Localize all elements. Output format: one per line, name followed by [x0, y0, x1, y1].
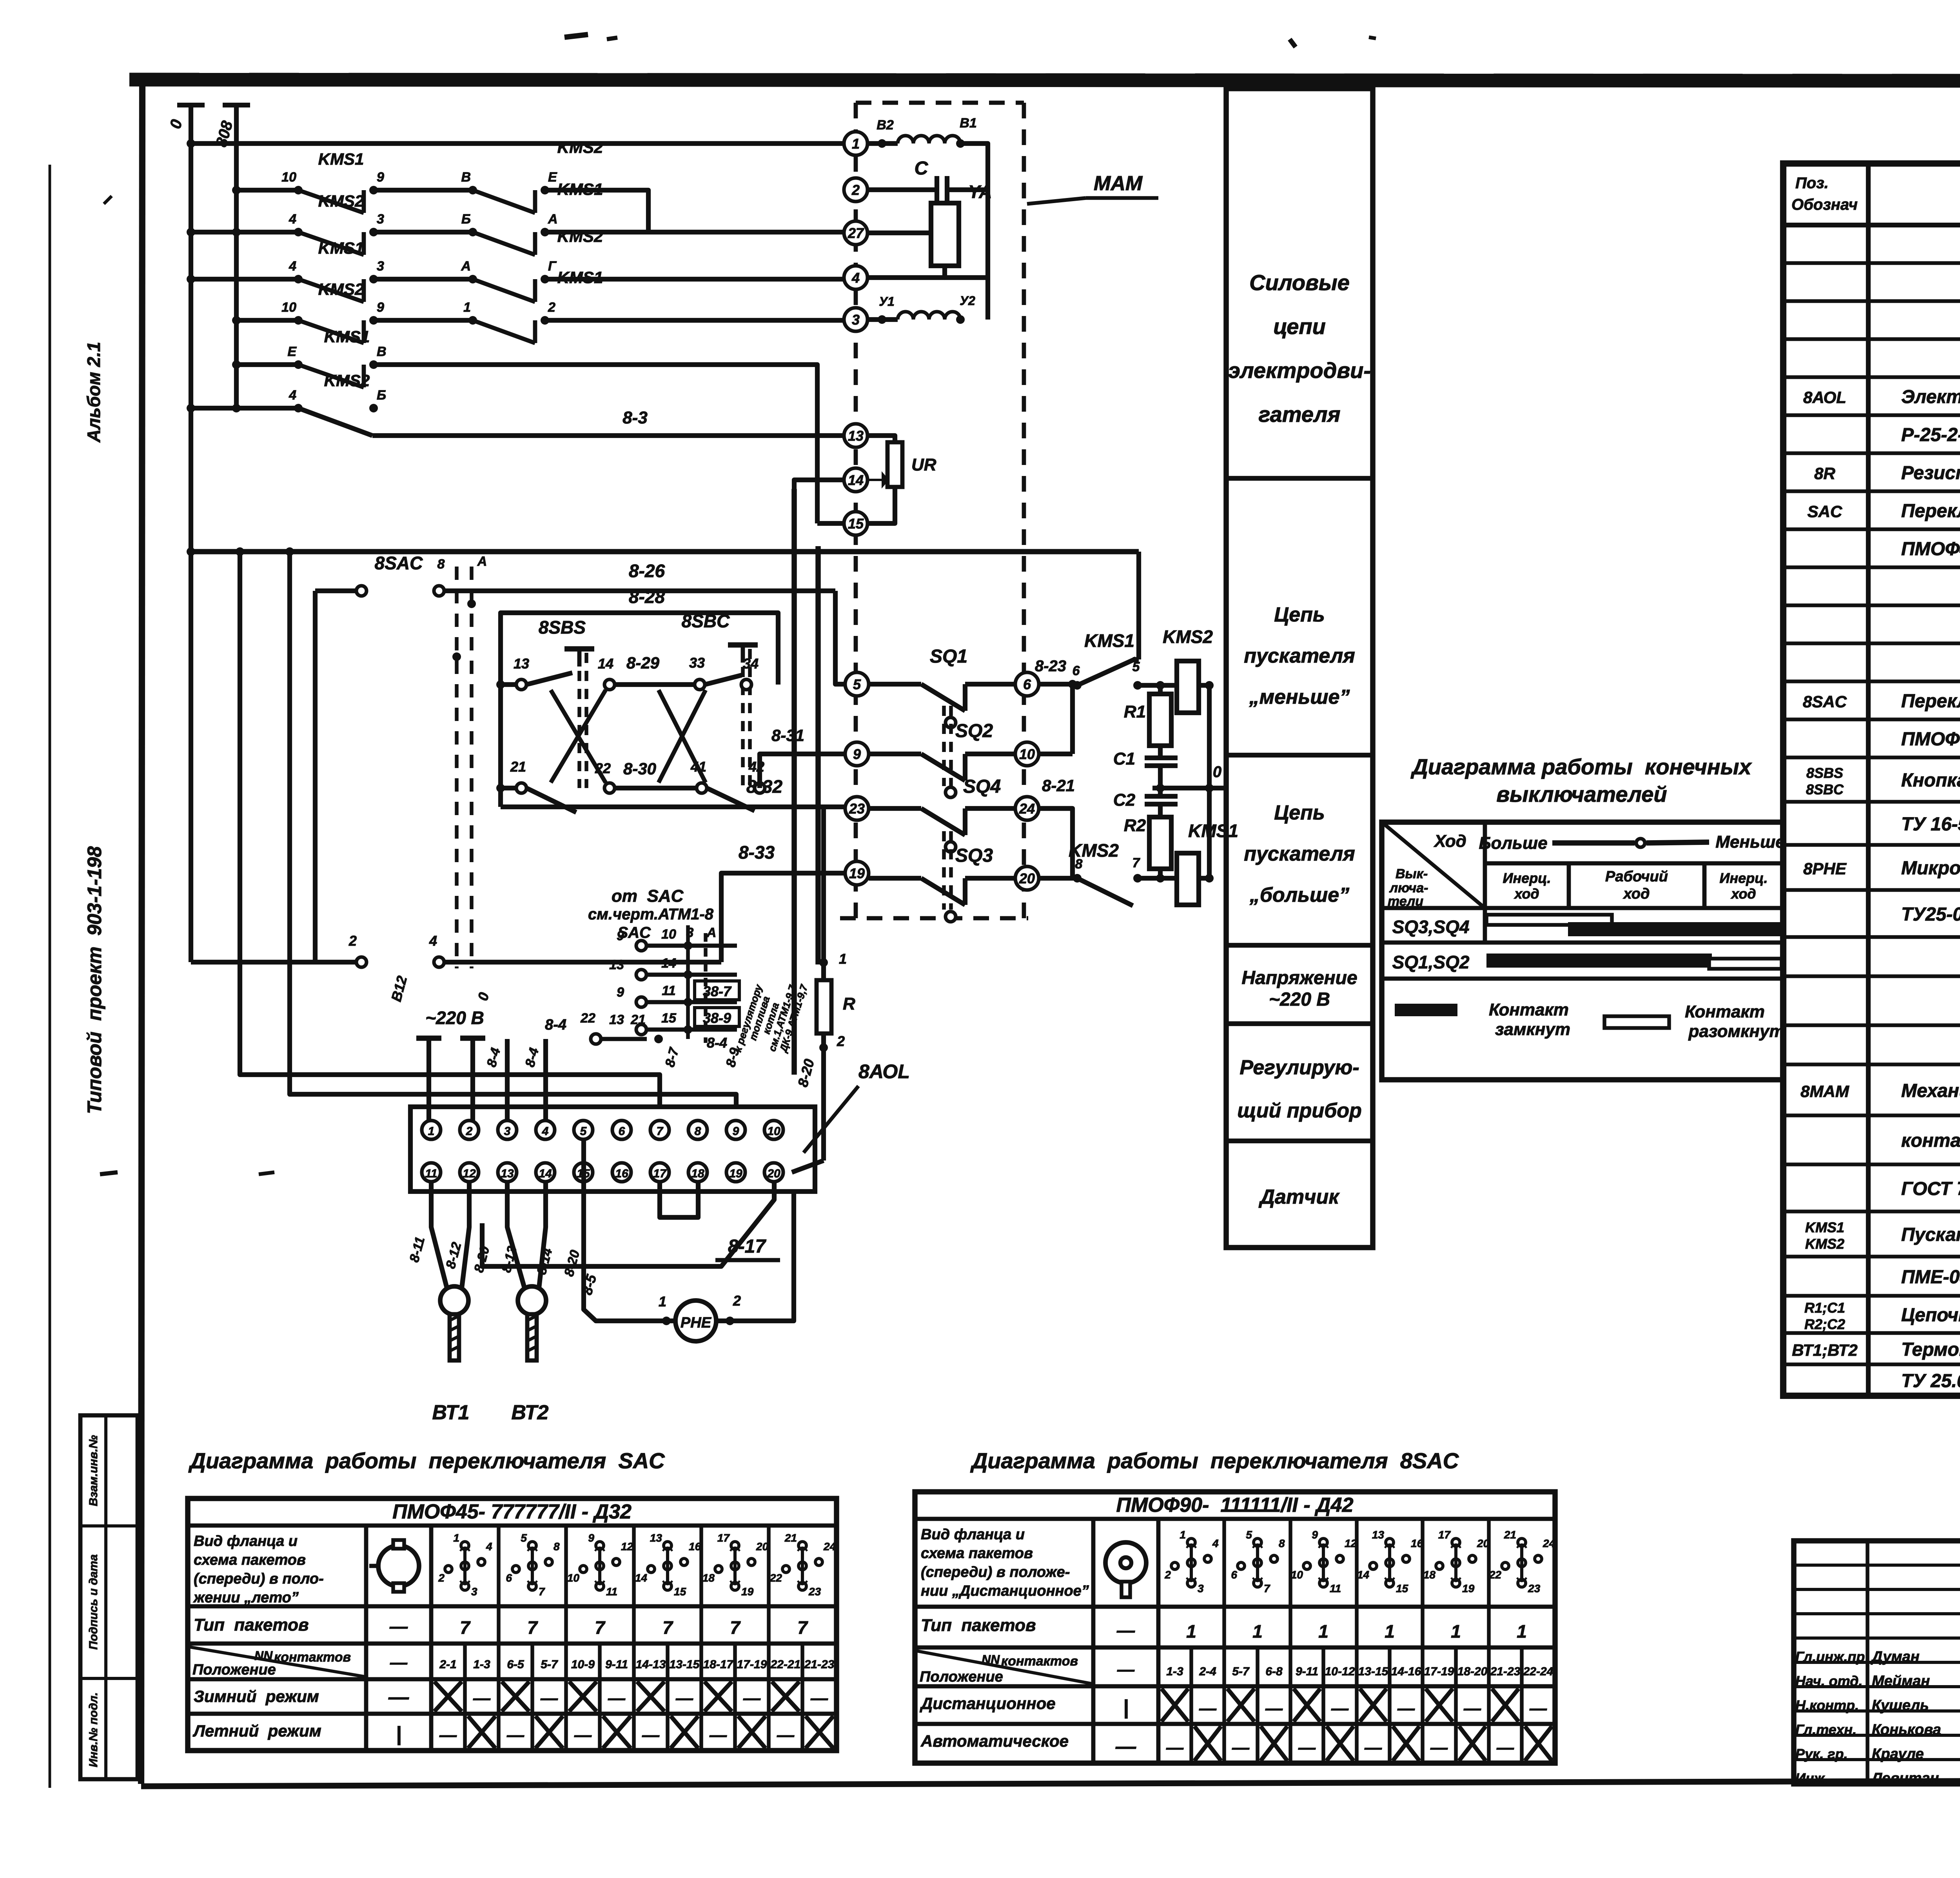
table headers	[1791, 174, 1960, 213]
MAM device dashed boundary	[840, 103, 1028, 918]
svg-text:19: 19	[741, 1586, 754, 1598]
bus 808	[213, 105, 250, 408]
svg-text:Летний режим: Летний режим	[192, 1722, 321, 1740]
svg-text:UR: UR	[911, 455, 936, 474]
button contact row 2 (21,22,41,42)	[496, 759, 765, 812]
svg-text:8-3: 8-3	[622, 408, 648, 427]
connector block 8AOL outline	[410, 1107, 815, 1191]
svg-text:гателя: гателя	[1259, 402, 1341, 427]
svg-text:ТУ25-04-1123-73: ТУ25-04-1123-73	[1901, 904, 1960, 925]
crossing wires X	[551, 690, 706, 783]
svg-text:2: 2	[348, 933, 357, 949]
svg-text:24: 24	[823, 1540, 836, 1553]
svg-text:ПМОФ90- 111111/II - Д42: ПМОФ90- 111111/II - Д42	[1116, 1494, 1354, 1517]
svg-text:Кнопка КЕ 011.УЗ, исп.2; ~50: Кнопка КЕ 011.УЗ, исп.2; ~500В	[1901, 770, 1960, 791]
svg-text:РНЕ: РНЕ	[681, 1315, 712, 1331]
svg-text:~220 В: ~220 В	[1269, 989, 1330, 1010]
svg-text:8SAC: 8SAC	[1803, 692, 1847, 711]
label Reguliruyushchiy pribor	[1237, 1056, 1362, 1122]
table row Р-25-2-1 ТУ25	[1901, 425, 1960, 445]
svg-text:21: 21	[784, 1532, 797, 1544]
motor winding U1-U2	[867, 294, 975, 324]
svg-text:8-4: 8-4	[545, 1017, 566, 1033]
packet scheme glyphs	[1164, 1529, 1555, 1595]
svg-text:22: 22	[595, 760, 611, 776]
mode row 1 pattern	[1123, 1689, 1547, 1722]
svg-text:11: 11	[1330, 1582, 1341, 1595]
svg-text:KMS2: KMS2	[1805, 1236, 1844, 1252]
contact KMS2 8-7	[1039, 840, 1160, 906]
svg-text:ПМОФ45- 777777/II - Д32: ПМОФ45- 777777/II - Д32	[392, 1500, 632, 1523]
svg-text:7: 7	[1264, 1582, 1270, 1595]
svg-text:Напряжение: Напряжение	[1241, 968, 1357, 988]
node 0 wire	[1152, 763, 1227, 792]
svg-text:22-24: 22-24	[1523, 1665, 1553, 1678]
packet type row	[389, 1616, 808, 1638]
table row ПМОФ45-777777/II-Д	[1901, 539, 1960, 559]
svg-text:4: 4	[429, 933, 437, 949]
terminal circle 20	[1015, 866, 1039, 890]
svg-text:Цепь: Цепь	[1274, 801, 1325, 824]
svg-text:Пускатель магнитный реверсив: Пускатель магнитный реверсивный	[1901, 1224, 1960, 1245]
svg-text:8-31: 8-31	[771, 726, 804, 745]
switch diagram table ПМОФ90- 111111/II - Д42	[915, 1492, 1555, 1763]
svg-text:ПМОФ90-111111/II-Д42 ТУ16-526: ПМОФ90-111111/II-Д42 ТУ16-526.128-75	[1901, 729, 1960, 750]
limit switch diagram table	[1382, 822, 1783, 1080]
svg-text:8-17: 8-17	[728, 1236, 766, 1257]
svg-text:8АОL: 8АОL	[858, 1061, 910, 1082]
svg-text:пускателя: пускателя	[1244, 843, 1355, 865]
table row 8МАМ	[1800, 1081, 1960, 1101]
svg-text:(спереди) в положе-: (спереди) в положе-	[921, 1564, 1070, 1580]
svg-text:13: 13	[609, 957, 624, 972]
svg-text:4: 4	[486, 1540, 492, 1553]
svg-text:19: 19	[729, 1167, 742, 1180]
scan noise marks top edge	[100, 35, 1376, 1174]
svg-text:1: 1	[453, 1532, 459, 1544]
terminal circle 27	[844, 221, 867, 245]
supply ~220V	[388, 974, 492, 1121]
coil KMS2	[1160, 627, 1213, 713]
svg-text:|: |	[1123, 1696, 1129, 1719]
svg-text:Б: Б	[461, 212, 471, 227]
svg-text:7: 7	[539, 1586, 545, 1598]
8SAC mechanical link dashed	[437, 554, 487, 968]
svg-text:18: 18	[702, 1572, 715, 1584]
svg-text:2-4: 2-4	[1199, 1665, 1216, 1678]
svg-text:замкнут: замкнут	[1495, 1020, 1570, 1039]
svg-text:8-21: 8-21	[1042, 776, 1075, 795]
svg-text:1: 1	[1318, 1621, 1328, 1642]
rotated notes block	[732, 983, 810, 1054]
svg-text:13: 13	[514, 656, 529, 672]
component table	[1783, 163, 1960, 1396]
svg-text:Регулирую-: Регулирую-	[1240, 1056, 1359, 1079]
svg-text:Подпись и дата: Подпись и дата	[87, 1554, 100, 1649]
svg-text:8SBC: 8SBC	[682, 611, 730, 631]
svg-text:5: 5	[580, 1125, 587, 1138]
svg-text:14-13: 14-13	[636, 1658, 666, 1671]
svg-text:KMS2: KMS2	[1163, 627, 1213, 647]
svg-text:8: 8	[1279, 1537, 1285, 1549]
svg-text:9: 9	[377, 170, 384, 185]
svg-text:Датчик: Датчик	[1258, 1186, 1340, 1208]
svg-text:8SAC: 8SAC	[375, 553, 423, 573]
wire 8-28 button enclosure top	[501, 587, 778, 807]
svg-text:1: 1	[1385, 1621, 1395, 1642]
contactor contacts row KMS1 4-3 / KMS2 A-G	[187, 227, 844, 302]
svg-text:контактный МЭО-250/25-0,25: контактный МЭО-250/25-0,25	[1901, 1130, 1960, 1151]
svg-text:Нач. отд.: Нач. отд.	[1795, 1673, 1862, 1689]
table row ТУ 16-526. 407-76	[1901, 808, 1960, 839]
svg-text:18: 18	[1423, 1569, 1436, 1581]
circuit group label column	[1226, 89, 1373, 1248]
wire 8-17 diagonal from terminal 20	[482, 1182, 780, 1266]
svg-text:1: 1	[839, 951, 847, 967]
svg-text:24: 24	[1543, 1537, 1555, 1549]
svg-text:—: —	[1115, 1735, 1136, 1758]
svg-text:—: —	[1199, 1699, 1217, 1718]
svg-text:23: 23	[808, 1586, 821, 1598]
svg-text:Б: Б	[377, 388, 386, 403]
svg-text:выключателей: выключателей	[1496, 782, 1667, 806]
svg-text:ВТ1;ВТ2: ВТ1;ВТ2	[1792, 1341, 1857, 1359]
limit switch SQ4	[869, 776, 1015, 852]
svg-text:—: —	[675, 1689, 693, 1708]
svg-text:—: —	[810, 1689, 828, 1708]
svg-text:А: А	[461, 259, 471, 274]
contactor contact row E KMS1 V	[232, 327, 817, 523]
svg-text:14: 14	[635, 1572, 648, 1584]
svg-text:6: 6	[1023, 676, 1031, 692]
svg-text:12: 12	[1345, 1537, 1357, 1549]
svg-text:KMS1: KMS1	[318, 150, 364, 168]
svg-text:18-20: 18-20	[1457, 1665, 1488, 1678]
terminal circle 23	[845, 797, 869, 820]
svg-text:SQ3: SQ3	[955, 845, 993, 866]
svg-text:10: 10	[661, 927, 676, 942]
svg-text:Р-25-2-1 ТУ25.02.1948-76: Р-25-2-1 ТУ25.02.1948-76	[1901, 425, 1960, 445]
svg-text:7: 7	[797, 1617, 808, 1638]
svg-text:12: 12	[621, 1540, 633, 1553]
svg-text:11: 11	[425, 1167, 437, 1180]
wire to terminal 15	[817, 521, 845, 526]
table row KMS1|KMS2	[1805, 1219, 1960, 1252]
svg-text:—: —	[1463, 1699, 1481, 1718]
svg-text:27: 27	[848, 225, 864, 241]
svg-text:8-4: 8-4	[707, 1035, 727, 1051]
table row ВТ1;ВТ2	[1792, 1339, 1960, 1360]
svg-text:16: 16	[689, 1540, 701, 1553]
signature names	[1795, 1649, 1960, 1787]
svg-text:Поз.: Поз.	[1795, 174, 1829, 192]
svg-text:8-28: 8-28	[629, 587, 665, 607]
svg-text:2: 2	[851, 182, 860, 198]
svg-text:17-19: 17-19	[737, 1658, 767, 1671]
label Silovye tsepi	[1228, 270, 1371, 427]
svg-text:9: 9	[617, 985, 624, 1000]
svg-text:Положение: Положение	[920, 1669, 1003, 1685]
svg-text:—: —	[1397, 1699, 1415, 1718]
packet type row	[1116, 1620, 1527, 1642]
svg-text:14: 14	[539, 1167, 552, 1180]
svg-text:~220 В: ~220 В	[425, 1008, 484, 1028]
svg-text:Думан: Думан	[1871, 1649, 1920, 1665]
mode row 1 pattern	[388, 1682, 828, 1711]
svg-text:—: —	[1298, 1738, 1316, 1757]
svg-text:14: 14	[598, 656, 613, 672]
risers terminals 7 9 from SAC contacts	[662, 1045, 742, 1068]
svg-text:1: 1	[428, 1125, 435, 1138]
svg-text:Положение: Положение	[192, 1662, 276, 1678]
capacitor C	[867, 158, 988, 203]
svg-text:Рук. гр.: Рук. гр.	[1795, 1746, 1848, 1762]
svg-text:15: 15	[848, 516, 864, 532]
svg-text:—: —	[388, 1686, 409, 1709]
wire 8-3 to terminal 13	[298, 408, 845, 436]
svg-text:Е: Е	[287, 344, 297, 359]
svg-text:6: 6	[1231, 1569, 1237, 1581]
svg-text:SQ2: SQ2	[955, 721, 993, 741]
svg-text:1-3: 1-3	[473, 1658, 490, 1671]
svg-text:Левитан: Левитан	[1871, 1770, 1939, 1787]
svg-text:9: 9	[588, 1532, 594, 1544]
table row 8РНЕ	[1803, 858, 1960, 879]
svg-text:щий прибор: щий прибор	[1237, 1099, 1362, 1122]
flange view glyph	[1105, 1542, 1146, 1597]
svg-text:3: 3	[377, 259, 384, 274]
svg-text:6: 6	[1073, 663, 1080, 678]
wire terminal6 to contact KMS1	[1035, 657, 1077, 688]
svg-text:9: 9	[377, 300, 384, 315]
svg-text:13-15: 13-15	[670, 1658, 700, 1671]
svg-text:15: 15	[674, 1586, 686, 1598]
bus 0	[167, 105, 205, 962]
svg-text:|: |	[396, 1723, 402, 1745]
svg-text:2: 2	[837, 1033, 845, 1049]
svg-text:Кушель: Кушель	[1872, 1697, 1929, 1714]
svg-text:—: —	[506, 1725, 524, 1745]
svg-text:—: —	[1364, 1738, 1382, 1757]
svg-text:—: —	[777, 1725, 795, 1745]
svg-text:10: 10	[1291, 1569, 1303, 1581]
packet scheme glyphs	[438, 1532, 836, 1598]
svg-text:4: 4	[289, 212, 296, 227]
table row SAC	[1808, 501, 1960, 521]
svg-text:7: 7	[657, 1125, 664, 1138]
svg-text:KMS2: KMS2	[324, 371, 370, 390]
label 8AOL with leader	[804, 1061, 910, 1153]
svg-text:—: —	[1232, 1738, 1250, 1757]
svg-text:Механизм электрический одноо: Механизм электрический однооборотный	[1901, 1081, 1960, 1101]
svg-text:3: 3	[377, 212, 384, 227]
svg-text:—: —	[1265, 1699, 1283, 1718]
svg-text:6: 6	[506, 1572, 512, 1584]
wire bus0 to terminal 1	[187, 139, 844, 148]
table row 8SAC	[1803, 691, 1960, 712]
wire row (y=1407) bus0 to coils	[187, 547, 1139, 556]
SAC group callout text	[588, 886, 716, 941]
svg-text:разомкнут: разомкнут	[1688, 1022, 1784, 1041]
svg-text:15: 15	[661, 1011, 677, 1026]
svg-text:1: 1	[1186, 1621, 1196, 1642]
svg-text:KMS1: KMS1	[1188, 821, 1238, 841]
svg-text:16: 16	[1411, 1537, 1423, 1549]
svg-text:6-8: 6-8	[1265, 1665, 1283, 1678]
svg-text:6-5: 6-5	[507, 1658, 524, 1671]
terminal circle 9	[845, 742, 869, 766]
svg-text:SQ3,SQ4: SQ3,SQ4	[1392, 917, 1470, 937]
svg-text:4: 4	[542, 1125, 549, 1138]
svg-text:Гл.инж.пр: Гл.инж.пр	[1795, 1649, 1865, 1665]
connector terminals row 1	[422, 1121, 783, 1139]
svg-text:20: 20	[756, 1540, 769, 1553]
svg-text:Инерц.: Инерц.	[1720, 870, 1768, 886]
label Napryazhenie 220V	[1241, 968, 1357, 1010]
svg-text:Гл.техн.: Гл.техн.	[1795, 1722, 1857, 1738]
svg-text:—: —	[1430, 1738, 1448, 1757]
svg-text:8SBS: 8SBS	[539, 617, 586, 638]
table row 8R	[1814, 463, 1960, 483]
terminal circle 10	[1015, 742, 1039, 766]
8SAC pole 2 row (2,4) and wire 8-33	[191, 842, 847, 967]
contact KMS1 6-5	[1073, 630, 1165, 690]
svg-text:от SAC: от SAC	[612, 886, 684, 906]
vertical feeder x=804	[313, 591, 318, 962]
svg-text:12: 12	[463, 1167, 476, 1180]
svg-text:10: 10	[567, 1572, 580, 1584]
svg-text:ВТ2: ВТ2	[512, 1401, 549, 1424]
svg-text:Тип пакетов: Тип пакетов	[194, 1615, 309, 1635]
svg-text:ГОСТ 7192-80Е: ГОСТ 7192-80Е	[1901, 1179, 1960, 1199]
svg-text:У1: У1	[879, 294, 894, 309]
terminal circle 2	[844, 178, 867, 202]
svg-text:Цепочка RC: Цепочка RC	[1901, 1305, 1960, 1326]
svg-text:ВТ1: ВТ1	[432, 1401, 470, 1424]
svg-text:4: 4	[851, 270, 860, 286]
svg-text:7: 7	[1132, 855, 1141, 870]
SQ mechanical links dashed	[944, 706, 951, 910]
svg-text:17-19: 17-19	[1424, 1665, 1454, 1678]
wire H2 row y=2791	[285, 547, 736, 1107]
svg-text:—: —	[390, 1653, 408, 1672]
legend	[1395, 1000, 1785, 1041]
wire 8-32 to terminal 23	[501, 776, 848, 807]
svg-text:13-15: 13-15	[1358, 1665, 1389, 1678]
svg-text:18-17: 18-17	[703, 1658, 734, 1671]
svg-text:—: —	[1116, 1620, 1135, 1640]
limit switch SQ3	[869, 845, 1015, 922]
svg-text:3: 3	[471, 1586, 477, 1598]
svg-text:19: 19	[1462, 1582, 1475, 1595]
svg-text:жении „лето”: жении „лето”	[193, 1589, 299, 1606]
svg-text:33: 33	[689, 655, 705, 671]
svg-text:2: 2	[548, 300, 555, 315]
terminal circle 15	[844, 512, 867, 535]
svg-text:Диаграмма работы переключате: Диаграмма работы переключателя SAC	[188, 1448, 665, 1473]
risers to SAC rows from terminals 3 4	[484, 1039, 546, 1121]
terminal circle 24	[1015, 797, 1039, 820]
wire 8-31 to terminal 9	[760, 726, 845, 788]
svg-text:—: —	[389, 1616, 408, 1636]
capacitor C2	[1113, 788, 1178, 817]
svg-text:У2: У2	[960, 294, 975, 308]
table row ПМЕ-083 ~220В ОСТ	[1901, 1267, 1960, 1288]
terminal circle 13	[844, 424, 867, 447]
wire 8-21 terminal 24	[1039, 776, 1075, 808]
svg-text:R2;C2: R2;C2	[1804, 1316, 1845, 1332]
svg-text:8-23: 8-23	[1035, 657, 1066, 675]
svg-text:Микроамперметр М4206 шкала 0÷: Микроамперметр М4206 шкала 0÷100мкА	[1901, 858, 1960, 879]
capacitor C1	[1113, 746, 1178, 788]
svg-text:8: 8	[695, 1125, 701, 1138]
svg-text:3: 3	[1198, 1582, 1204, 1595]
svg-text:—: —	[743, 1689, 761, 1708]
MAM label with leader	[1027, 172, 1158, 204]
svg-text:38-7: 38-7	[703, 983, 732, 999]
svg-text:22: 22	[1489, 1569, 1502, 1581]
flange/labels column texts	[915, 1526, 1093, 1750]
terminal circle 1	[844, 132, 867, 155]
svg-text:—: —	[1529, 1699, 1547, 1718]
svg-text:9: 9	[617, 928, 624, 943]
svg-text:21: 21	[630, 1012, 646, 1027]
svg-text:Конькова: Конькова	[1872, 1722, 1941, 1738]
contactor contacts row KMS2 10-9 / KMS1 1-2	[232, 268, 844, 343]
svg-text:8: 8	[1075, 857, 1083, 872]
svg-text:1: 1	[1252, 1621, 1263, 1642]
svg-text:Цепь: Цепь	[1274, 603, 1325, 626]
svg-text:Дистанционное: Дистанционное	[920, 1694, 1056, 1713]
svg-text:8МАМ: 8МАМ	[1800, 1082, 1849, 1101]
svg-text:ПМОФ45-777777/II-Д32 ТУ16-526: ПМОФ45-777777/II-Д32 ТУ16-526.128-75	[1901, 539, 1960, 559]
svg-text:Мейман: Мейман	[1872, 1673, 1930, 1689]
svg-text:13: 13	[501, 1167, 514, 1180]
svg-text:—: —	[439, 1725, 457, 1745]
svg-text:9: 9	[733, 1125, 739, 1138]
svg-text:16: 16	[615, 1167, 628, 1180]
svg-text:SAC: SAC	[1808, 502, 1842, 521]
motor winding B2-B1	[867, 116, 988, 190]
mode row 2 pattern	[1115, 1726, 1552, 1761]
svg-text:В: В	[461, 170, 471, 185]
table row R1;C1|R2;C2	[1804, 1300, 1960, 1332]
svg-text:ход: ход	[1730, 886, 1756, 902]
limit switch SQ1	[869, 646, 1015, 728]
svg-text:Вид фланца и: Вид фланца и	[194, 1533, 298, 1549]
svg-text:9: 9	[853, 746, 861, 762]
terminal circle 3	[844, 308, 867, 331]
svg-text:KMS2: KMS2	[557, 138, 603, 156]
svg-text:МАМ: МАМ	[1094, 172, 1143, 195]
svg-text:2: 2	[1164, 1569, 1171, 1581]
resistor R2	[1124, 816, 1171, 883]
svg-text:Автоматическое: Автоматическое	[920, 1732, 1069, 1750]
svg-text:Рабочий: Рабочий	[1605, 868, 1668, 885]
svg-text:—: —	[1496, 1738, 1514, 1757]
svg-text:Инв.№ подл.: Инв.№ подл.	[87, 1692, 100, 1767]
svg-text:20: 20	[767, 1167, 780, 1180]
svg-text:Переключатель малогабаритный: Переключатель малогабаритный	[1901, 691, 1960, 712]
wire terminal 20/24 joining	[1039, 808, 1073, 878]
terminal circle 4	[844, 266, 867, 289]
SAC contacts rows	[545, 925, 737, 1044]
svg-text:17: 17	[717, 1532, 730, 1544]
svg-text:KMS1: KMS1	[318, 239, 364, 257]
left margin stamp boxes	[80, 1415, 138, 1779]
svg-text:4: 4	[289, 388, 296, 403]
svg-text:1-3: 1-3	[1166, 1665, 1183, 1678]
